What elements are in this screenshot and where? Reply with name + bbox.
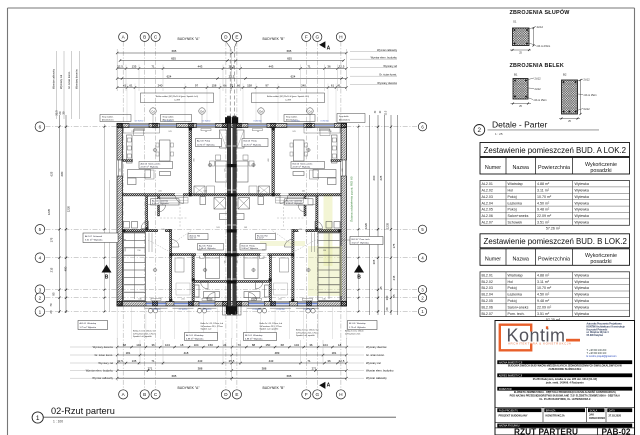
radiator bottom <box>302 298 312 300</box>
extension line below wall <box>116 308 118 340</box>
radiator top <box>201 129 211 131</box>
svg-text:30,5: 30,5 <box>386 110 388 115</box>
svg-text:3.51 m²: 3.51 m² <box>537 221 550 225</box>
dim row 624 top <box>117 78 346 80</box>
svg-text:BUDYNEK "A": BUDYNEK "A" <box>177 37 200 41</box>
B2 annotation stirrup <box>578 93 584 96</box>
extension line bottom minor <box>240 340 242 365</box>
left chain tick <box>58 289 60 291</box>
svg-text:∅6 co 15cm: ∅6 co 15cm <box>537 44 551 48</box>
svg-text:Wylewka: Wylewka <box>575 286 589 290</box>
svg-text:Numer: Numer <box>485 165 501 171</box>
svg-text:271: 271 <box>312 367 317 371</box>
svg-text:181: 181 <box>126 351 131 355</box>
svg-text:1220: 1220 <box>67 205 71 212</box>
row label left rotated <box>71 51 73 119</box>
svg-text:O1 90/150: O1 90/150 <box>252 309 260 311</box>
dim row walls bottom <box>117 362 346 364</box>
svg-text:4.88 m² Wylewka: 4.88 m² Wylewka <box>186 337 204 340</box>
svg-text:443: 443 <box>198 359 203 363</box>
small bubble bottom <box>257 309 261 313</box>
grid bubble 6 left <box>35 122 45 132</box>
grid line D <box>225 42 227 392</box>
svg-text:Łazienka: Łazienka <box>508 201 522 205</box>
svg-text:BRANŻA: BRANŻA <box>546 409 556 412</box>
svg-text:S1: S1 <box>513 20 517 24</box>
svg-text:36: 36 <box>151 343 155 347</box>
grid line F <box>305 42 307 392</box>
section marker A top <box>319 41 325 48</box>
row label right <box>350 75 397 77</box>
B1 annotation stirrup <box>526 97 533 100</box>
grid line B <box>144 42 146 392</box>
pier bottom <box>237 301 242 306</box>
row label right <box>350 51 397 53</box>
svg-text:41: 41 <box>337 84 341 88</box>
building top wall <box>117 124 347 128</box>
svg-text:AL2.07 Schowek: AL2.07 Schowek <box>85 235 103 238</box>
svg-text:1: 1 <box>39 309 42 314</box>
svg-text:241: 241 <box>181 298 185 300</box>
extension line minor <box>300 65 302 92</box>
pier bottom <box>223 301 228 306</box>
grid line 1 <box>46 311 419 313</box>
grid bubble F bottom <box>302 390 311 399</box>
svg-text:FAZA PROJEKTU: FAZA PROJEKTU <box>499 409 519 412</box>
dim row elem bottom <box>117 370 346 372</box>
svg-text:Strop nadbet.: Strop nadbet. <box>102 116 114 119</box>
bar adres inwestycji <box>497 373 632 377</box>
svg-text:241: 241 <box>278 298 282 300</box>
grid line 2 <box>46 297 419 299</box>
svg-text:O1 90/150: O1 90/150 <box>253 121 261 123</box>
svg-text:Belka 2x L15, 135cm, b.b: Belka 2x L15, 135cm, b.b <box>296 330 319 332</box>
lamp symbol <box>153 268 156 271</box>
svg-text:E: E <box>235 35 238 40</box>
svg-text:G: G <box>316 35 320 40</box>
extension line bottom <box>345 338 347 381</box>
svg-text:36: 36 <box>309 343 313 347</box>
row label right <box>350 58 397 60</box>
right chain tick <box>377 257 379 259</box>
party wall <box>227 116 230 315</box>
pier bottom <box>153 301 158 306</box>
svg-text:O1 90/150: O1 90/150 <box>276 309 284 311</box>
svg-text:135: 135 <box>132 359 137 363</box>
svg-text:150: 150 <box>265 343 270 347</box>
svg-text:68: 68 <box>123 343 127 347</box>
svg-text:BL2.01 Wiatrołap: BL2.01 Wiatrołap <box>245 334 263 337</box>
svg-text:Salon+aneks: Salon+aneks <box>508 305 529 309</box>
left chain tick <box>58 228 60 230</box>
entry steps bottom <box>226 306 237 314</box>
grid bubble 5 right <box>418 225 426 233</box>
lamp symbol <box>252 163 255 166</box>
svg-text:Strop nadbet.: Strop nadbet. <box>163 116 175 119</box>
extension line minor <box>222 65 224 92</box>
svg-text:241: 241 <box>168 131 172 133</box>
svg-text:3.51 m² Wylewka: 3.51 m² Wylewka <box>85 239 103 242</box>
extension line below wall <box>131 308 133 340</box>
svg-text:2xPoszttwm 23,5, 175cm: 2xPoszttwm 23,5, 175cm <box>201 325 224 328</box>
svg-text:2∅12: 2∅12 <box>584 79 591 82</box>
B2 dim right <box>580 80 582 114</box>
left chain tick <box>58 297 60 299</box>
svg-text:Hol: Hol <box>508 189 514 193</box>
svg-text:4.88 m²: 4.88 m² <box>537 273 550 277</box>
svg-text:Wiatrołap: Wiatrołap <box>508 182 523 186</box>
svg-text:Pokój: Pokój <box>508 195 517 199</box>
row label right <box>350 67 397 69</box>
svg-text:Wylewka: Wylewka <box>575 299 589 303</box>
window top <box>160 124 177 128</box>
svg-text:1 : 100: 1 : 100 <box>53 419 63 423</box>
svg-text:695: 695 <box>287 49 292 53</box>
window sill bottom <box>145 307 168 309</box>
pier top <box>189 123 194 128</box>
extension line to wall <box>184 84 186 123</box>
highlight yellow stairs <box>308 246 342 296</box>
small bubble bottom <box>202 309 206 313</box>
svg-text:695: 695 <box>287 374 292 378</box>
svg-text:Nazwa: Nazwa <box>512 165 528 171</box>
svg-text:BL2.03 Pokój: BL2.03 Pokój <box>244 140 257 142</box>
window bottom <box>174 302 192 307</box>
svg-text:460: 460 <box>194 157 196 161</box>
svg-text:Wylewka: Wylewka <box>575 293 589 297</box>
lamp symbol <box>307 268 310 271</box>
svg-text:70: 70 <box>49 303 53 307</box>
svg-text:25: 25 <box>519 106 522 108</box>
svg-text:B: B <box>143 392 146 397</box>
svg-text:3.11 m²: 3.11 m² <box>257 237 264 240</box>
svg-text:KONTIM Architektura i Konstruk: KONTIM Architektura i Konstrukcje <box>587 325 626 328</box>
svg-text:Spadek L=0; opaditki: Spadek L=0; opaditki <box>133 335 152 338</box>
extension line below wall <box>260 308 262 340</box>
svg-text:136: 136 <box>328 131 332 133</box>
extension line bottom minor <box>322 340 324 365</box>
kontim logo bracket <box>500 325 531 351</box>
svg-text:Belka 2x L15, 135cm, b.b: Belka 2x L15, 135cm, b.b <box>201 323 224 325</box>
pier bottom <box>271 301 276 306</box>
svg-text:104: 104 <box>194 343 199 347</box>
near-wall tick <box>104 289 106 291</box>
window top <box>129 124 149 128</box>
svg-text:Nazwa: Nazwa <box>512 256 528 262</box>
extension line below wall <box>245 308 247 340</box>
svg-text:Wylewka: Wylewka <box>575 208 589 212</box>
svg-text:71: 71 <box>151 65 155 69</box>
window top <box>314 124 334 128</box>
svg-text:5: 5 <box>39 227 42 232</box>
unit B interior <box>236 128 341 302</box>
svg-text:6∅12: 6∅12 <box>584 108 591 111</box>
svg-text:O1 90/150: O1 90/150 <box>203 309 211 311</box>
svg-text:Strop nadbet.: Strop nadbet. <box>286 116 298 119</box>
grid bubble F top <box>302 32 311 41</box>
left dim chain lines <box>59 115 61 313</box>
bar faza projektu <box>497 408 541 412</box>
svg-text:325: 325 <box>237 259 239 263</box>
svg-text:Wymiary dworów: Wymiary dworów <box>377 81 397 85</box>
near-wall tick <box>104 228 106 230</box>
svg-text:AL2.04: AL2.04 <box>482 201 493 205</box>
svg-text:∅6 co 15cm: ∅6 co 15cm <box>584 94 597 97</box>
svg-text:Belka 2x L15, 135cm, b.b: Belka 2x L15, 135cm, b.b <box>133 331 156 333</box>
svg-text:271: 271 <box>148 367 153 371</box>
slab note box 3 <box>284 115 315 122</box>
svg-text:Hol: Hol <box>508 280 514 284</box>
svg-text:369: 369 <box>125 247 127 251</box>
kontim i dot orange <box>546 326 548 329</box>
svg-text:305: 305 <box>372 259 376 264</box>
svg-text:OZNACZONO: OZNACZONO <box>589 417 605 420</box>
svg-text:2xPoszttwm 23,5, 175cm: 2xPoszttwm 23,5, 175cm <box>296 331 319 334</box>
radiator bottom <box>151 298 161 300</box>
svg-text:Strop belek: Strop belek <box>339 115 349 118</box>
dim row walls top <box>117 68 346 70</box>
grid line 5 <box>46 228 419 230</box>
svg-text:H: H <box>339 392 342 397</box>
extension line minor <box>240 65 242 92</box>
svg-text:Krzysztof Pniewski: Krzysztof Pniewski <box>587 328 608 331</box>
right chain tick <box>377 228 379 230</box>
svg-text:18: 18 <box>338 343 342 347</box>
svg-text:136: 136 <box>138 298 142 300</box>
S1 dim right <box>533 28 535 46</box>
svg-text:BL2.04: BL2.04 <box>482 293 493 297</box>
svg-text:32,5: 32,5 <box>117 65 123 69</box>
title block frame <box>495 321 635 435</box>
svg-text:1.75 m² Wylewka: 1.75 m² Wylewka <box>80 326 97 329</box>
svg-text:66: 66 <box>223 84 227 88</box>
window bottom <box>146 302 166 307</box>
svg-text:O1 90/150: O1 90/150 <box>202 121 210 123</box>
slab note box 4 <box>337 114 365 123</box>
svg-text:Wymiary od: Wymiary od <box>383 64 397 68</box>
svg-text:4.50 m² Wylewka: 4.50 m² Wylewka <box>286 202 303 205</box>
room table building B <box>480 234 630 248</box>
svg-text:175: 175 <box>50 237 54 242</box>
grid bubble B bottom <box>140 390 149 399</box>
svg-text:2xPoszttwm 23,5, 175cm: 2xPoszttwm 23,5, 175cm <box>260 325 283 328</box>
grid line G <box>316 42 318 392</box>
svg-text:Spadek L=0: Spadek L=0 <box>201 329 213 331</box>
window top <box>197 124 216 128</box>
grid bubble G bottom <box>313 390 322 399</box>
svg-text:BUDYNEK "B": BUDYNEK "B" <box>262 37 285 41</box>
svg-text:O1 90/150: O1 90/150 <box>320 121 328 123</box>
B1 annotation mid <box>528 87 534 90</box>
svg-text:104: 104 <box>294 343 299 347</box>
S1 dim bottom <box>510 49 531 51</box>
svg-text:10.70 m² Wylewka: 10.70 m² Wylewka <box>197 143 215 146</box>
S1 annotation 4fi12 <box>529 27 536 30</box>
beam note box A <box>141 93 214 103</box>
svg-text:158: 158 <box>247 84 252 88</box>
svg-text:325: 325 <box>225 259 227 263</box>
pier bottom <box>307 301 312 306</box>
svg-text:624: 624 <box>291 75 296 79</box>
grid bubble H bottom <box>336 390 345 399</box>
svg-text:Zestawienie pomieszczeń BUD. A: Zestawienie pomieszczeń BUD. A LOK.2 <box>484 146 627 155</box>
svg-text:22.09 m²: 22.09 m² <box>537 214 552 218</box>
svg-text:KONSTRUKCJA: KONSTRUKCJA <box>546 415 565 418</box>
extension line to wall <box>219 84 221 123</box>
svg-text:695: 695 <box>172 374 177 378</box>
radiator top <box>319 129 329 131</box>
svg-text:Pom. tech.: Pom. tech. <box>508 312 525 316</box>
svg-text:B2: B2 <box>563 73 567 77</box>
extension line bottom <box>231 338 233 381</box>
extension line below wall <box>274 308 276 340</box>
svg-text:443: 443 <box>269 65 274 69</box>
building left wall <box>117 124 123 307</box>
grid line 3 <box>46 289 419 291</box>
radiator top <box>252 129 262 131</box>
label BL1.01 wiatrolap <box>348 321 378 330</box>
svg-text:Salon+aneks: Salon+aneks <box>508 214 529 218</box>
kontim logo underline <box>566 339 580 342</box>
svg-text:[B1] 25(3cm): [B1] 25(3cm) <box>339 120 350 122</box>
svg-text:ADRES INWESTYCJI: ADRES INWESTYCJI <box>499 374 523 377</box>
beam section B1 <box>513 79 528 100</box>
svg-text:4: 4 <box>39 256 42 261</box>
grid bubble 5 left <box>35 225 45 235</box>
svg-text:∅6 co 15cm: ∅6 co 15cm <box>534 99 547 102</box>
svg-text:103: 103 <box>216 227 220 229</box>
svg-text:71: 71 <box>307 65 311 69</box>
B2 dim bottom <box>559 118 580 120</box>
window sill bottom <box>296 307 319 309</box>
extension line bottom minor <box>139 340 141 365</box>
svg-text:20: 20 <box>385 307 389 311</box>
svg-text:B: B <box>143 35 146 40</box>
svg-text:Autorska Pracownia Projektowa: Autorska Pracownia Projektowa <box>587 323 623 326</box>
svg-text:9.48 m² Wylewka: 9.48 m² Wylewka <box>242 247 259 250</box>
svg-text:1.75 m² Wylewka: 1.75 m² Wylewka <box>349 326 366 329</box>
svg-text:9.48 m²: 9.48 m² <box>537 299 550 303</box>
svg-text:3.51 m²: 3.51 m² <box>537 312 550 316</box>
B2 annotation top <box>576 79 584 82</box>
svg-text:Wymiar całkowity: Wymiar całkowity <box>377 48 398 52</box>
window bottom <box>297 302 317 307</box>
grid bubble 1 right <box>418 307 426 315</box>
svg-text:680: 680 <box>60 171 64 176</box>
grid bubble 2 right <box>418 294 426 302</box>
svg-text:Wylewka: Wylewka <box>575 273 589 277</box>
svg-text:66: 66 <box>237 84 241 88</box>
drawing row divider <box>495 427 635 429</box>
svg-text:10.70 m² Wylewka: 10.70 m² Wylewka <box>244 143 262 146</box>
svg-text:Wylewka: Wylewka <box>575 221 589 225</box>
pier top <box>342 123 347 128</box>
svg-text:97: 97 <box>195 84 199 88</box>
pier top <box>307 123 312 128</box>
label BL2.07 pom tech <box>350 237 383 245</box>
grid bubble 4 right <box>418 254 426 262</box>
svg-text:Pokój: Pokój <box>508 208 517 212</box>
svg-text:71: 71 <box>307 359 311 363</box>
svg-text:AL2.01: AL2.01 <box>482 182 493 186</box>
svg-text:Dd: Dd <box>259 109 263 113</box>
bar nazwa rysunku <box>497 424 632 428</box>
svg-text:Wylewka: Wylewka <box>575 201 589 205</box>
svg-text:INWESTOR: INWESTOR <box>499 388 512 391</box>
svg-text:B1: B1 <box>514 73 518 77</box>
extension line minor <box>162 65 164 92</box>
grid bubble G top <box>313 32 322 41</box>
right chain tick <box>377 297 379 299</box>
svg-text:100: 100 <box>385 295 389 300</box>
extension line to wall <box>242 84 244 123</box>
svg-text:Powierzchnia: Powierzchnia <box>538 256 570 262</box>
grid bubble 3 right <box>418 286 426 294</box>
svg-text:PAB-02: PAB-02 <box>602 427 631 435</box>
small bubble Dd <box>199 108 205 114</box>
pier top <box>223 123 228 128</box>
svg-text:T: +48 600 200 100: T: +48 600 200 100 <box>587 353 607 355</box>
svg-text:10.70 m²: 10.70 m² <box>537 286 552 290</box>
extension line below wall <box>174 308 176 340</box>
grid bubble C top <box>151 32 160 41</box>
svg-text:215: 215 <box>50 267 54 272</box>
pier bottom <box>342 301 347 306</box>
svg-text:57.26 m²: 57.26 m² <box>546 227 561 231</box>
svg-text:Pokój: Pokój <box>508 286 517 290</box>
S1 annotation stirrup <box>529 43 536 46</box>
extension line below wall <box>217 308 219 340</box>
svg-text:3.11 m²: 3.11 m² <box>537 280 550 284</box>
svg-text:71: 71 <box>151 359 155 363</box>
right chain tick <box>377 126 379 128</box>
svg-text:418: 418 <box>184 351 189 355</box>
right dim chain line <box>384 115 386 315</box>
svg-text:UL. 05-250 RADZYMIN, UL. LETNI: UL. 05-250 RADZYMIN, UL. LETNISKOWA 9 <box>539 398 591 401</box>
extension line bottom minor <box>222 340 224 365</box>
svg-text:61: 61 <box>129 84 133 88</box>
bar branza <box>544 408 585 412</box>
dim row windows top <box>117 87 346 89</box>
radiator bottom <box>251 298 261 300</box>
svg-text:175: 175 <box>392 243 396 248</box>
highlight yellow shaft <box>324 194 333 266</box>
svg-text:ARCHITEKTURA & KONSTRUKCJA: ARCHITEKTURA & KONSTRUKCJA <box>508 341 571 345</box>
svg-text:Belka 2x L15, 135cm, b.b: Belka 2x L15, 135cm, b.b <box>260 323 283 325</box>
svg-text:388: 388 <box>198 367 203 371</box>
svg-text:104: 104 <box>323 343 328 347</box>
svg-text:AL1.01 Wiatrołap: AL1.01 Wiatrołap <box>80 322 97 325</box>
svg-text:Wymiar całkowity: Wymiar całkowity <box>52 68 56 89</box>
svg-text:2xPoszttwm 23,5: 2xPoszttwm 23,5 <box>345 332 361 335</box>
svg-text:88: 88 <box>252 343 256 347</box>
svg-text:G: G <box>316 392 320 397</box>
label BL2.01 wiatrolap <box>244 333 277 341</box>
building bottom wall <box>117 302 347 307</box>
grid bubble 6 right <box>418 123 426 131</box>
extension line bottom minor <box>300 340 302 365</box>
grid bubble D bottom <box>221 390 230 399</box>
svg-text:Wylewka: Wylewka <box>575 280 589 284</box>
svg-text:24: 24 <box>223 343 227 347</box>
svg-text:150: 150 <box>137 250 141 252</box>
svg-text:BL2.03: BL2.03 <box>482 286 493 290</box>
svg-text:32,5: 32,5 <box>339 65 345 69</box>
B1 dim bottom <box>511 103 532 105</box>
svg-text:3.11 m²: 3.11 m² <box>190 237 197 240</box>
extension line below wall <box>317 308 319 340</box>
svg-text:BUDYNEK "B": BUDYNEK "B" <box>262 386 285 390</box>
